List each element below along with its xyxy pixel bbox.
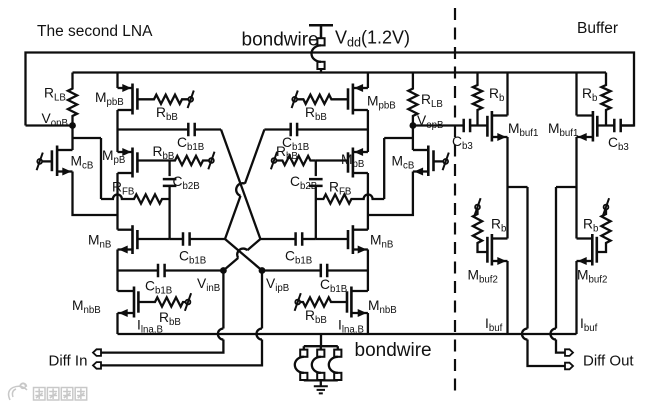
power Vdd(1.2V) T-bar <box>309 25 333 38</box>
resistor R_bB (M_pB left gate) <box>170 156 209 165</box>
capacitor C_b1B source-line right <box>321 264 327 278</box>
wire: M_pB-L gate lead <box>137 159 169 161</box>
wire: bondwire to VDD rail <box>320 69 322 73</box>
capacitor C_b1B upper-left <box>188 123 194 137</box>
wire: V_inB line down to M_nbB drain <box>116 271 118 292</box>
transistor M_buf1 right <box>592 111 595 142</box>
bondwire bottom three bondwires <box>300 350 307 357</box>
svg-text:The second LNA: The second LNA <box>37 23 153 40</box>
wire: X short diagonal to V_inB with hop <box>223 239 260 271</box>
transistor M_buf2 left <box>491 234 494 266</box>
node V_ipB <box>259 267 266 274</box>
svg-text:Vdd(1.2V): Vdd(1.2V) <box>335 28 410 50</box>
wire: M_nB-R gate junction to cross cap <box>302 238 316 240</box>
wire: X diagonal B with hop (upper-right to lower-left) <box>225 130 264 240</box>
terminal Diff In - <box>93 362 101 369</box>
wire: M_nB-R source down <box>367 250 369 271</box>
wire: M_buf1-R source down to M_buf2-R <box>575 137 577 239</box>
wire: to M_pB-R source <box>367 130 369 153</box>
wire: to M_pB source <box>116 130 118 153</box>
ground symbol <box>314 386 328 393</box>
wire: bottom common rail I_buf <box>118 333 577 335</box>
resistor R_b buffer bottom-right <box>597 209 611 252</box>
capacitor C_b1B cross left <box>183 232 190 246</box>
resistor R_LB left <box>68 73 77 126</box>
svg-text:bondwire: bondwire <box>242 30 319 51</box>
wire: M_cB-L source to cascode node <box>73 172 118 216</box>
wire: tap-R rail hop <box>551 329 557 340</box>
capacitor C_b2B right <box>309 179 323 186</box>
wire: M_pB-R gate lead <box>316 159 348 161</box>
wire: M_nB-L gate junction to cross cap <box>170 238 183 240</box>
wire: Diff In+ to V_inB with rail hop <box>101 340 223 353</box>
transistor M_pB left <box>131 148 134 178</box>
bondwire top pad square 2 <box>317 62 324 69</box>
wire: X short diagonal to V_ipB <box>225 239 262 271</box>
resistor R_bB (M_pbB left gate) <box>137 95 188 104</box>
wire: C_b1B to V_ipB node <box>262 269 321 271</box>
bondwire top pad square 1 <box>317 38 324 45</box>
resistor R_LB right <box>408 73 417 126</box>
wire: C_b3-R to M_buf1-R gate <box>597 124 614 126</box>
switch symbol (R_bB M_pbB right) <box>292 97 297 102</box>
transistor M_nbB left <box>133 287 136 318</box>
wire: C_b1B to V_inB node <box>165 269 224 271</box>
wire: V_opB down to M_cB-R drain <box>412 126 414 151</box>
wire: M_cB-R source to cascode node <box>368 172 413 216</box>
wire: V_onB branch to R_FB <box>73 138 102 199</box>
wire: C_b1B upper-left to cross <box>195 128 221 130</box>
switch symbol (M_cB right gate) <box>443 159 448 164</box>
resistor R_bB (M_pB right gate) <box>276 156 315 165</box>
wire: C_b3 to M_buf1-L gate <box>470 124 487 126</box>
wire: rail to bottom bondwire <box>320 334 322 346</box>
resistor R_FB right <box>316 194 384 203</box>
svg-text:bondwire: bondwire <box>355 340 432 361</box>
wire: M_nB-L source down <box>116 250 118 271</box>
transistor M_nB right <box>352 225 355 254</box>
capacitor C_b1B cross right <box>296 232 303 246</box>
wire: C_b2B-L to R_FB junction and M_nB gate <box>168 186 170 239</box>
node V_onB <box>69 122 76 129</box>
svg-text:Buffer: Buffer <box>577 20 618 37</box>
wire: M_pB-L gate junction down to C_b2B <box>168 161 170 177</box>
wire: M_pbB drain down <box>116 110 118 130</box>
switch symbol (R_b M_buf2 left) <box>475 205 480 210</box>
wire: M_nB-L source to C_b1B <box>118 269 159 271</box>
resistor R_bB (M_pbB right gate) <box>297 95 348 104</box>
transistor M_buf2 right <box>591 234 594 266</box>
wire: tap-L to Diff Out lower <box>528 340 566 367</box>
wire: C_b2B-R down to M_nB-R gate line <box>315 186 317 239</box>
switch symbol (R_b M_buf2 right) <box>604 205 609 210</box>
wire: cross cap right to X corner <box>260 238 295 240</box>
switch symbol (M_cB left gate) <box>37 159 42 164</box>
svg-text:Diff Out: Diff Out <box>583 353 634 370</box>
transistor M_nB left <box>131 225 134 254</box>
wire: buffer-R output tap <box>556 187 577 329</box>
wire: C_b1B upper-right to cross <box>264 128 290 130</box>
transistor M_cB left <box>56 146 59 177</box>
transistor M_pbB right <box>352 84 355 115</box>
capacitor C_b2B left <box>163 179 177 186</box>
wire: bondwire to ground <box>320 380 322 386</box>
svg-text:Diff In: Diff In <box>49 353 88 370</box>
bondwire bottom top bar <box>304 345 338 347</box>
wire: V_onB down to M_cB drain <box>71 126 73 151</box>
resistor R_bB (M_nbB left gate) <box>138 297 185 306</box>
bondwire bottom bottom bar <box>304 379 338 381</box>
switch symbol (R_bB M_pB right) <box>272 158 277 163</box>
wire: V_opB branch to R_FB right <box>384 138 413 199</box>
node V_opB <box>410 122 417 129</box>
wire: M_pB-R gate junction down to C_b2B <box>315 161 317 177</box>
switch symbol (R_bB M_nbB right) <box>295 300 300 305</box>
transistor M_buf1 left <box>491 111 494 142</box>
wire: cascode node M_pB to M_nB <box>116 173 118 230</box>
resistor R_b buffer top-right <box>601 73 610 126</box>
resistor R_b buffer bottom-left <box>473 209 488 252</box>
resistor R_b buffer top-left <box>473 73 482 126</box>
wire: M_nB-R gate lead to junction <box>316 238 348 240</box>
wire: cross cap left to X corner <box>190 238 225 240</box>
wire: VDD rail to M_pbB-R source <box>367 73 369 89</box>
wire: X diagonal A (upper-left to lower-right) <box>221 130 260 240</box>
switch symbol (R_bB M_pbB left) <box>188 97 193 102</box>
wire: M_nbB-R source to bottom rail <box>367 313 369 334</box>
wire: M_nB-R source to C_b1B <box>327 269 368 271</box>
watermark (decorative) <box>9 383 87 400</box>
resistor R_FB left <box>101 194 170 203</box>
wire: M_pbB-R drain down <box>367 110 369 130</box>
terminal Diff Out - <box>565 363 573 370</box>
transistor M_pbB left <box>131 84 134 115</box>
transistor M_nbB right <box>350 287 353 318</box>
capacitor C_b1B upper-right <box>291 123 297 137</box>
switch symbol (R_bB M_nbB left) <box>186 300 191 305</box>
wire: V_ipB line down to M_nbB-R drain <box>367 271 369 292</box>
terminal Diff Out + <box>565 349 573 356</box>
wire: Diff In- to V_ipB with rail hop <box>101 340 262 366</box>
transistor M_cB right <box>427 146 430 177</box>
bondwire top arc <box>312 45 321 61</box>
capacitor C_b3 right <box>614 119 620 133</box>
switch symbol (R_bB M_pB left) <box>209 158 214 163</box>
transistor M_pB right <box>352 148 355 178</box>
wire: top V_onB rail to right buffer input <box>26 53 635 126</box>
wire: M_pbB-L drain to C_b1B upper-left <box>118 128 189 130</box>
wire: cascode node right <box>367 173 369 230</box>
wire: VDD rail <box>73 71 607 73</box>
dashed LNA/Buffer separator <box>454 8 456 391</box>
capacitor C_b1B source-line left <box>158 264 165 278</box>
node V_inB <box>220 267 227 274</box>
wire: M_cB-R gate lead <box>434 160 444 162</box>
wire: M_buf1-L source down to M_buf2-L <box>506 137 508 239</box>
wire: tap-L rail hop <box>522 329 528 340</box>
wire: M_buf1-R drain to VDD rail <box>575 73 577 116</box>
wire: M_buf2-R source to rail end <box>575 261 577 334</box>
resistor R_bB (M_nbB right gate) <box>300 297 347 306</box>
wire: M_pbB-R drain to C_b1B upper-right <box>297 128 368 130</box>
wire: V_onB node to left rail <box>26 124 73 126</box>
wire: M_cB-L gate lead <box>42 160 52 162</box>
wire: V_opB to C_b3 left <box>413 124 464 126</box>
wire: M_buf2-L source to rail <box>506 261 508 334</box>
wire: top rail corner to C_b3 right <box>621 124 634 126</box>
wire: buffer-L output tap <box>508 187 528 329</box>
capacitor C_b3 left <box>464 119 470 133</box>
wire: VDD rail to M_pbB source <box>116 73 118 89</box>
wire: M_nB-L gate lead to junction <box>137 238 169 240</box>
wire: M_nbB-L source to bottom rail <box>116 313 118 334</box>
wire: M_buf1-L drain to VDD rail <box>506 73 508 116</box>
terminal Diff In + <box>93 349 101 356</box>
wire: tap-R to Diff Out upper <box>556 340 565 353</box>
